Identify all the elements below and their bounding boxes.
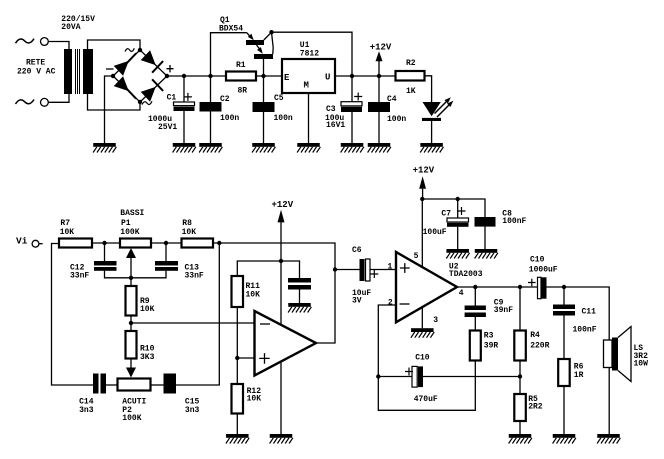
node C1 tap — [182, 74, 186, 78]
svg-text:1R: 1R — [574, 371, 584, 380]
svg-text:+12V: +12V — [413, 166, 435, 176]
capacitor C3 — [351, 76, 353, 102]
resistor R9 — [126, 286, 137, 316]
capacitor C6 — [360, 259, 365, 281]
ground R12 — [226, 434, 249, 444]
resistor R6 — [558, 359, 570, 386]
bridge diode bottom-left — [114, 76, 136, 98]
capacitor C1 — [174, 102, 195, 106]
ground speaker — [597, 434, 620, 444]
wire Q1 base2 to rail — [263, 59, 265, 102]
svg-text:100K: 100K — [122, 414, 141, 423]
svg-text:4: 4 — [459, 289, 464, 298]
svg-text:1K: 1K — [406, 87, 416, 96]
node C3 tap — [350, 74, 354, 78]
transformer T1 secondary winding — [83, 49, 93, 94]
wire secondary top to bridge AC top — [88, 40, 141, 50]
wire P2 to C15 — [151, 384, 164, 386]
resistor R5 — [514, 394, 526, 421]
wire R5 to ground — [519, 421, 521, 434]
svg-text:100uF: 100uF — [423, 228, 447, 237]
bridge diode bottom-right — [141, 79, 163, 101]
ground C4 — [368, 143, 391, 153]
AC terminal 1 — [41, 38, 49, 46]
ground R6 — [553, 434, 576, 444]
svg-text:33nF: 33nF — [185, 272, 204, 281]
ground C2 — [199, 143, 222, 153]
transistor Q1 base bar 1 — [246, 40, 264, 45]
wire U1 output rail — [335, 75, 396, 77]
svg-text:R2: R2 — [406, 59, 416, 68]
capacitor C12 — [104, 243, 106, 261]
resistor R12 — [232, 384, 244, 414]
svg-text:100n: 100n — [274, 114, 293, 123]
plus sign at bridge — [167, 65, 174, 72]
wire C10 to R4 R5 node — [423, 376, 520, 378]
speaker LS — [604, 340, 613, 368]
minus sign at bridge — [106, 68, 114, 70]
node feedback — [129, 321, 133, 325]
node A — [102, 241, 106, 245]
wire R9 to R10 — [130, 316, 132, 332]
node pin2 — [376, 374, 380, 378]
svg-text:10K: 10K — [182, 228, 197, 237]
svg-text:R7: R7 — [60, 219, 70, 228]
tilde at bridge top — [125, 48, 134, 51]
svg-text:3n3: 3n3 — [185, 406, 200, 415]
wire C2 bottom — [210, 112, 212, 144]
svg-text:10K: 10K — [247, 395, 262, 404]
wire U2 pin2 loop to R3 bottom — [378, 305, 475, 410]
svg-text:2: 2 — [388, 299, 393, 308]
svg-text:2R2: 2R2 — [528, 403, 543, 412]
wire C1 bottom — [183, 111, 185, 143]
AC terminal tilde 1 — [16, 39, 35, 44]
ground C7 — [446, 249, 469, 259]
svg-text:10W: 10W — [634, 360, 649, 369]
potentiometer P1 — [120, 239, 151, 248]
wire +12V down through opamp to ground — [280, 261, 282, 434]
svg-text:100n: 100n — [387, 115, 406, 124]
svg-text:16V1: 16V1 — [326, 121, 345, 130]
op-amp U2 triangle — [396, 252, 457, 322]
wire U2 pin5 — [421, 199, 423, 267]
node wiper junction — [129, 276, 133, 280]
wire P1 wiper down — [130, 258, 132, 286]
svg-text:U: U — [325, 73, 330, 83]
capacitor C10 input dc block — [378, 376, 412, 378]
svg-text:C11: C11 — [582, 308, 597, 317]
wire C10 to speaker — [547, 287, 610, 434]
resistor R8 — [182, 239, 214, 248]
ground C8 — [475, 249, 498, 259]
svg-text:100nF: 100nF — [502, 217, 526, 226]
capacitor C15 — [164, 374, 177, 394]
node U2 supply — [420, 197, 424, 201]
resistor R10 — [126, 331, 137, 359]
svg-text:Vi: Vi — [16, 236, 28, 247]
wire C12 C13 bottoms to wiper — [105, 271, 167, 278]
bridge diode top-left — [114, 53, 136, 75]
node C11 tap — [562, 285, 566, 289]
wire C15 up to node C — [176, 243, 219, 385]
wire R2 to LED — [425, 76, 432, 102]
svg-text:P1: P1 — [121, 219, 131, 228]
regulator U1 box — [282, 59, 335, 93]
svg-text:TDA2003: TDA2003 — [449, 270, 483, 279]
svg-text:39nF: 39nF — [494, 306, 513, 315]
svg-text:7812: 7812 — [300, 50, 319, 59]
wire C4 bottom — [378, 112, 380, 143]
node bridge AC bottom — [138, 100, 142, 104]
AC terminal 2 — [41, 98, 49, 106]
input terminal Vi — [32, 240, 39, 247]
svg-text:25V1: 25V1 — [158, 123, 177, 132]
wire feedback to op-amp inverting input — [131, 322, 255, 324]
wire Q1 collector to U1 output — [272, 32, 353, 76]
wire C9 to R3 — [474, 317, 476, 331]
svg-text:3K3: 3K3 — [140, 353, 155, 362]
bridge rectifier diamond — [113, 50, 167, 102]
op-amp U3 plus sign — [259, 353, 270, 364]
node C9 tap — [473, 285, 477, 289]
wire C11 to R6 — [563, 316, 565, 360]
ground C3 — [341, 143, 364, 153]
wire bias to op-amp non-inverting input — [237, 357, 254, 359]
resistor R4 — [514, 331, 526, 361]
transistor Q1 base bar 2 — [254, 54, 273, 59]
op-amp U3 minus sign — [260, 323, 270, 325]
wire Vi branch down to treble row — [52, 244, 94, 386]
svg-text:1: 1 — [388, 262, 393, 271]
svg-text:C10: C10 — [530, 256, 545, 265]
wire C7 to ground — [457, 227, 459, 249]
ground C5 — [252, 143, 275, 153]
wire secondary bottom to bridge AC bottom — [88, 94, 141, 110]
wire to R11 top — [237, 261, 281, 276]
wire C1 top — [183, 76, 185, 102]
+12V arrow opamp1 — [278, 210, 285, 223]
transistor Q1 emitter arrow — [247, 33, 250, 37]
wire U2 output — [457, 286, 538, 288]
op-amp U2 minus sign — [400, 303, 410, 305]
node bridge plus — [165, 74, 169, 78]
wire op-amp U3 output feedback up — [316, 270, 335, 344]
wire C5 bottom — [263, 112, 265, 143]
svg-text:39R: 39R — [484, 342, 499, 351]
wire R11 to R12 — [236, 307, 238, 384]
transformer T1 primary winding — [64, 49, 72, 94]
ground U1 — [297, 143, 320, 153]
wire C14 to P2 — [106, 384, 118, 386]
wire P1 to R8 — [151, 242, 182, 244]
capacitor bypass opamp1 — [288, 278, 311, 283]
wire R8 to node C and down to C6 feed — [213, 243, 335, 270]
wire C2 top — [210, 76, 212, 102]
svg-text:33nF: 33nF — [70, 272, 89, 281]
svg-text:+12V: +12V — [370, 43, 392, 53]
+12V arrow top — [378, 61, 380, 76]
svg-text:R1: R1 — [236, 61, 246, 70]
svg-text:220R: 220R — [530, 342, 549, 351]
node Q1 collector — [269, 30, 273, 34]
svg-text:100nF: 100nF — [573, 326, 597, 335]
ground U2 pin3 — [411, 328, 434, 338]
wire C3 bottom — [351, 112, 353, 143]
AC terminal tilde 2 — [16, 100, 35, 105]
node C — [217, 241, 221, 245]
ground bypass opamp1 — [288, 303, 311, 313]
svg-text:3n3: 3n3 — [79, 406, 94, 415]
capacitor C2 — [200, 102, 222, 112]
svg-text:C7: C7 — [441, 209, 451, 218]
wire bridge minus to ground — [105, 76, 114, 143]
capacitor C14 — [93, 374, 99, 394]
svg-text:C2: C2 — [220, 95, 230, 104]
svg-text:BDX54: BDX54 — [219, 25, 243, 34]
ground R5 — [509, 434, 532, 444]
svg-text:R4: R4 — [530, 331, 540, 340]
wire R1 to U1 — [256, 75, 282, 77]
wire plus rail — [167, 75, 226, 77]
ground C1 — [173, 143, 196, 153]
svg-text:3V: 3V — [352, 296, 362, 305]
wire R12 to ground — [236, 414, 238, 435]
wire bypass cap feed — [281, 261, 300, 278]
capacitor C8 — [475, 217, 496, 227]
wire U1 M pin to ground — [308, 93, 310, 143]
node +12V tap — [377, 74, 381, 78]
tilde at bridge bottom — [142, 101, 152, 104]
svg-text:10K: 10K — [60, 228, 75, 237]
capacitor C4 — [378, 76, 380, 102]
node bridge minus — [111, 74, 115, 78]
svg-text:1000uF: 1000uF — [529, 266, 558, 275]
wire U2 pin3 to ground — [421, 307, 423, 328]
resistor R7 — [59, 239, 92, 248]
wire AC1 to transformer primary top — [48, 42, 69, 50]
capacitor C13 — [165, 243, 167, 261]
svg-text:8R: 8R — [238, 87, 248, 96]
svg-text:M: M — [304, 81, 309, 91]
capacitor C5 — [253, 102, 275, 112]
+12V arrow U2 — [419, 176, 426, 189]
capacitor C11 — [563, 287, 565, 305]
wire node to C6 — [335, 269, 360, 271]
resistor R2 — [396, 71, 425, 81]
resistor R11 — [232, 276, 244, 307]
svg-text:C10: C10 — [415, 354, 430, 363]
capacitor C9 — [474, 287, 476, 306]
node C2 tap — [208, 74, 212, 78]
svg-text:100K: 100K — [120, 228, 139, 237]
svg-text:RETE: RETE — [26, 59, 45, 68]
capacitor C7 — [457, 199, 459, 218]
svg-text:C1: C1 — [167, 94, 177, 103]
node R4 R5 — [518, 374, 522, 378]
ground LED — [420, 143, 443, 153]
svg-text:R8: R8 — [182, 219, 192, 228]
wire bypass cap to ground — [299, 290, 301, 304]
svg-text:5: 5 — [414, 252, 419, 261]
svg-text:C3: C3 — [326, 105, 336, 114]
wire R4 — [519, 287, 521, 331]
resistor R3 — [470, 331, 481, 361]
svg-text:10K: 10K — [140, 305, 155, 314]
node bridge AC top — [138, 48, 142, 52]
wire Q1 emitter riser — [211, 33, 247, 76]
transistor Q1 second emitter arrow — [257, 45, 260, 49]
svg-text:220 V AC: 220 V AC — [17, 68, 56, 77]
potentiometer P2 — [118, 379, 151, 391]
svg-text:470uF: 470uF — [414, 395, 438, 404]
transformer T1 core — [76, 49, 80, 94]
node C6 feed — [333, 267, 337, 271]
svg-text:100n: 100n — [220, 114, 239, 123]
wire AC2 to transformer primary bottom — [48, 94, 69, 102]
svg-text:3: 3 — [433, 316, 438, 325]
svg-text:BASSI: BASSI — [120, 209, 144, 218]
capacitor C10 output electrolytic — [538, 277, 542, 298]
node +12V distribution — [279, 259, 283, 263]
wire LED to ground — [431, 121, 433, 143]
svg-text:10K: 10K — [246, 291, 261, 300]
node bias — [235, 356, 239, 360]
svg-text:C5: C5 — [274, 94, 284, 103]
wire supply rail to C8 — [422, 199, 485, 217]
svg-text:20VA: 20VA — [61, 23, 80, 32]
wire C8 to ground — [484, 227, 486, 249]
svg-text:C6: C6 — [352, 246, 362, 255]
wire R7 to P1 — [92, 242, 120, 244]
svg-text:C4: C4 — [387, 95, 397, 104]
wire R4 to R5 — [519, 361, 521, 395]
svg-text:R3: R3 — [484, 332, 494, 341]
op-amp U3 triangle — [255, 311, 317, 376]
resistor R1 — [226, 72, 256, 81]
node R4 tap — [518, 285, 522, 289]
LED D1 — [423, 102, 441, 116]
svg-text:+12V: +12V — [272, 200, 294, 210]
node C5 tap — [261, 74, 265, 78]
node C7 tap — [456, 197, 460, 201]
wire C6 to U2 pin1 — [370, 269, 396, 271]
ground opamp1 V- — [270, 434, 293, 444]
wire R10 to P2 wiper arrow — [130, 359, 132, 369]
bridge diode top-right — [141, 50, 163, 72]
transistor Q1 collector lines — [264, 32, 273, 54]
svg-text:E: E — [284, 73, 290, 83]
wire R6 to ground — [563, 386, 565, 434]
ground bridge — [93, 143, 116, 153]
op-amp U2 plus sign — [400, 263, 410, 273]
node B — [164, 241, 168, 245]
